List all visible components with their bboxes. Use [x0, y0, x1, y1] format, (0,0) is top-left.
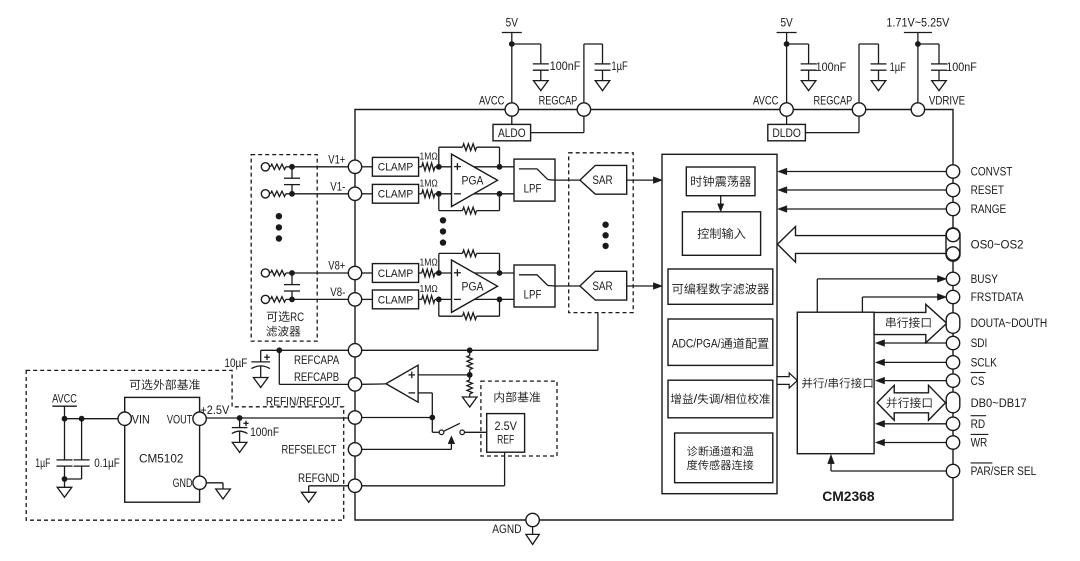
label serial interface	[886, 317, 930, 328]
programmable digital filter block	[668, 269, 773, 304]
ADC/PGA/channel config block	[668, 319, 773, 365]
resistor divider lower	[469, 375, 471, 380]
svg-text:CS: CS	[971, 374, 985, 388]
pin V8+	[348, 266, 361, 279]
svg-text:1MΩ: 1MΩ	[420, 178, 439, 189]
wire 5V to AVCC right	[786, 33, 788, 104]
pin SCLK	[946, 356, 959, 369]
label internal reference	[495, 392, 541, 403]
node PGA output top	[497, 164, 503, 170]
node divider top	[467, 347, 473, 353]
svg-text:SAR: SAR	[592, 281, 612, 293]
svg-text:+2.5V: +2.5V	[200, 403, 230, 417]
node PGA output top	[497, 270, 503, 276]
capacitor 100nF polarized	[239, 418, 241, 428]
pin AGND	[526, 513, 539, 526]
svg-text:GND: GND	[173, 478, 193, 490]
op-amp PGA	[452, 154, 498, 206]
node junction 5V/100nF	[509, 41, 515, 47]
wire RESET arrow	[782, 189, 947, 191]
wire supply to VDRIVE	[917, 33, 919, 104]
input terminal + series resistor V8-	[261, 295, 269, 303]
pin RESET	[946, 183, 959, 196]
svg-text:RC: RC	[290, 310, 304, 324]
ADC SAR block	[580, 271, 627, 300]
parallel/serial interface block	[797, 312, 874, 454]
buffer + mark	[409, 374, 416, 376]
node AVCC/1uF	[62, 416, 68, 422]
wire feedback bottom right	[477, 315, 500, 317]
svg-text:DLDO: DLDO	[772, 128, 801, 140]
ellipsis dots RC column	[276, 213, 282, 219]
label optional RC filter line1	[267, 311, 290, 322]
optional external reference dashed box	[26, 370, 344, 520]
block arrow parallel interface DB0~DB17	[877, 385, 945, 420]
pin V8-	[348, 293, 361, 306]
svg-text:AVCC: AVCC	[52, 392, 77, 406]
svg-text:VOUT: VOUT	[167, 414, 193, 426]
pin RD	[946, 417, 959, 430]
svg-text:LPF: LPF	[524, 184, 542, 196]
pin V1-	[348, 187, 361, 200]
op-amp PGA	[452, 260, 498, 312]
wire PAR/SER SEL to interface	[831, 470, 947, 472]
svg-text:REFCAPA: REFCAPA	[294, 353, 340, 367]
filter LPF box	[514, 159, 555, 201]
label optional external reference	[130, 379, 200, 390]
wire LPF to SAR	[548, 179, 555, 182]
svg-text:SDI: SDI	[971, 336, 988, 350]
wire caps join	[65, 478, 82, 480]
svg-text:1.71V~5.25V: 1.71V~5.25V	[886, 16, 950, 30]
wire feedback top	[438, 253, 440, 273]
ground (AGND)	[526, 534, 539, 544]
wire divider to buffer +	[418, 374, 470, 376]
wire GND to ground	[206, 482, 223, 484]
svg-text:FRSTDATA: FRSTDATA	[971, 290, 1025, 304]
svg-text:BUSY: BUSY	[971, 272, 998, 286]
wire feedback top right	[477, 252, 500, 254]
wire feedback bottom	[438, 299, 440, 316]
reference IC CM5102	[125, 397, 200, 502]
svg-text:WR: WR	[971, 436, 988, 450]
LPF symbol	[519, 275, 548, 286]
wire SAR to digital core + arrow	[627, 285, 655, 287]
switch contact right	[460, 430, 465, 435]
regulator DLDO	[768, 124, 806, 140]
svg-text:5V: 5V	[506, 16, 519, 30]
resistor 1Mohm V1-	[419, 193, 422, 195]
svg-text:/: /	[720, 392, 724, 406]
PGA + mark	[454, 166, 461, 168]
svg-text:V8+: V8+	[328, 259, 345, 273]
svg-text:CLAMP: CLAMP	[378, 189, 413, 201]
node 0.1uF tap	[79, 416, 85, 422]
pin REFCAPA	[348, 344, 361, 357]
capacitor 1uF (REGCAP right)	[871, 63, 887, 65]
wire AVCC to VIN	[65, 418, 119, 420]
ground (100nF AVCC)	[534, 81, 549, 91]
capacitor RC filter ch1	[291, 167, 293, 178]
wire LPF to SAR	[548, 285, 555, 288]
wire WR arrow	[879, 442, 947, 444]
pin PAR/SER SEL	[946, 464, 959, 477]
PGA - mark	[454, 298, 461, 300]
node PGA + input	[436, 270, 442, 276]
clamp block V8+	[372, 264, 418, 283]
wire feedback top	[438, 147, 440, 167]
label parallel interface	[887, 397, 932, 408]
capacitor 10uF (REFCAP)	[260, 350, 262, 362]
wire V8- to clamp	[361, 298, 372, 300]
pin VIN	[118, 412, 131, 425]
2.5V REF block	[487, 414, 525, 453]
resistor 1Mohm V8+	[419, 272, 422, 274]
wire buffer out to REFCAPB	[361, 383, 386, 385]
gain/offset/phase calibration block	[668, 380, 773, 418]
resistor feedback bottom	[463, 207, 477, 214]
wire ALDO-REGCAP	[531, 132, 584, 134]
pin VOUT	[193, 412, 206, 425]
input terminal + series resistor V1+	[261, 163, 269, 171]
clamp block V1+	[372, 157, 418, 176]
pin DB0~DB17 capsule	[946, 392, 960, 413]
wire REFSELECT to switch + arrow	[361, 448, 451, 450]
wire BUSY from interface	[816, 279, 818, 312]
svg-text:1µF: 1µF	[890, 60, 907, 74]
node junction VDRIVE/100nF	[915, 41, 921, 47]
svg-text:/: /	[694, 392, 698, 406]
svg-text:CONVST: CONVST	[971, 165, 1013, 179]
svg-text:AVCC: AVCC	[753, 93, 778, 107]
node REFCAP split	[276, 347, 282, 353]
svg-text:REF: REF	[497, 435, 514, 447]
wire PGA out bottom to LPF	[439, 193, 514, 195]
PGA - mark	[454, 193, 461, 195]
ground (CM5102 GND)	[216, 489, 231, 499]
block arrow OS0~OS2 bus	[778, 227, 947, 263]
buffer - mark	[409, 392, 416, 394]
clock oscillator block	[686, 167, 755, 196]
svg-text:5V: 5V	[780, 16, 793, 30]
SAR group dashed box	[569, 153, 634, 313]
LPF symbol	[519, 169, 548, 180]
pin REFSELECT	[348, 443, 361, 456]
node PGA - input	[436, 297, 442, 303]
wire REFGND to 2.5V REF	[361, 485, 504, 487]
svg-text:ALDO: ALDO	[498, 128, 526, 140]
svg-text:V1-: V1-	[330, 179, 345, 193]
wire 5V to AVCC	[511, 33, 513, 104]
regulator ALDO	[493, 124, 531, 140]
wire to ground	[64, 479, 66, 487]
node divider mid	[467, 372, 473, 378]
wire FRSTDATA from interface	[861, 297, 863, 312]
wire feedback top right	[477, 146, 500, 148]
svg-text:REGCAP: REGCAP	[814, 93, 853, 107]
wire VOUT to REFIN/REFOUT	[206, 417, 349, 419]
pin WR	[946, 436, 959, 449]
svg-text:RANGE: RANGE	[971, 202, 1007, 216]
wire V1- to clamp	[361, 193, 372, 195]
pin SDI	[946, 336, 959, 349]
PGA + mark	[454, 272, 461, 274]
capacitor 100nF (AVCC decoupling)	[533, 63, 549, 65]
capacitor 100nF (AVCC right)	[801, 63, 817, 65]
wire SDI arrow	[879, 342, 947, 344]
wire SAR to digital core + arrow	[627, 179, 655, 181]
wire REFIN to switch	[431, 418, 433, 433]
svg-text:REFSELECT: REFSELECT	[282, 442, 337, 456]
wire CONVST arrow	[782, 171, 947, 173]
wire REFIN internal	[361, 417, 432, 419]
node VOUT/100nF	[237, 415, 243, 421]
svg-text:DOUTA~DOUTH: DOUTA~DOUTH	[971, 316, 1048, 330]
svg-text:OS0~OS2: OS0~OS2	[971, 238, 1024, 252]
svg-text:SAR: SAR	[592, 175, 612, 187]
internal reference dashed box	[481, 381, 557, 456]
ground (100nF AVCC right)	[801, 81, 816, 91]
pin AVCC (right)	[780, 103, 793, 116]
svg-text:REGCAP: REGCAP	[539, 93, 578, 107]
ground (divider)	[462, 397, 477, 407]
wire to decoupling cap right	[787, 43, 809, 45]
ground (REFGND)	[301, 492, 316, 502]
op-amp reference buffer	[386, 365, 418, 402]
resistor 1Mohm V1+	[419, 166, 422, 168]
svg-text:REFCAPB: REFCAPB	[294, 370, 339, 384]
clamp block V8-	[372, 290, 418, 309]
svg-text:DB0~DB17: DB0~DB17	[971, 396, 1027, 410]
node PGA output bottom	[497, 191, 503, 197]
wire AVCC-DLDO	[786, 116, 788, 125]
wire switch to 2.5V REF	[465, 431, 487, 433]
input terminal + series resistor V8+	[261, 269, 269, 277]
svg-text:10µF: 10µF	[224, 356, 247, 370]
ground (1uF REGCAP right)	[871, 81, 886, 91]
ellipsis dots PGA column	[440, 217, 446, 223]
label optional RC filter line2	[266, 326, 300, 337]
wire SCLK arrow	[879, 361, 947, 363]
svg-text:CLAMP: CLAMP	[378, 162, 413, 174]
wire RD arrow	[879, 423, 947, 425]
svg-text:CM2368: CM2368	[822, 489, 874, 505]
wire REGCAP to 1uF cap	[583, 44, 585, 103]
ground (1uF REGCAP)	[595, 81, 610, 91]
wire V1+ to clamp	[361, 166, 372, 168]
ADC SAR block	[580, 165, 627, 194]
svg-text:2.5V: 2.5V	[495, 421, 518, 433]
control input block	[682, 212, 760, 256]
pin CS	[946, 374, 959, 387]
ground (CM5102 caps)	[57, 487, 72, 497]
svg-text:100nF: 100nF	[816, 60, 847, 74]
svg-text:VIN: VIN	[132, 414, 150, 426]
resistor feedback bottom	[463, 313, 477, 320]
wire REFCAPB external	[278, 350, 280, 384]
svg-text:CLAMP: CLAMP	[378, 268, 413, 280]
svg-text:REFGND: REFGND	[298, 471, 340, 485]
digital core box	[662, 154, 777, 493]
svg-text:1µF: 1µF	[35, 456, 51, 470]
wire CS arrow	[879, 380, 947, 382]
capacitor 1uF (CM5102)	[64, 419, 66, 460]
svg-text:VDRIVE: VDRIVE	[929, 93, 965, 107]
capacitor 100nF (VDRIVE)	[931, 63, 947, 65]
svg-text:CM5102: CM5102	[139, 453, 183, 465]
diagnostic channels block	[675, 433, 773, 483]
wire AVCC-ALDO	[511, 116, 513, 125]
svg-text:PGA: PGA	[462, 281, 484, 293]
resistor feedback top	[463, 144, 477, 151]
svg-text:100nF: 100nF	[250, 425, 279, 439]
wire DLDO-REGCAP	[805, 132, 859, 134]
wire REGCAP2 to 1uF cap	[858, 44, 860, 103]
svg-text:RESET: RESET	[971, 183, 1005, 197]
node REFIN	[429, 415, 435, 421]
capacitor 1uF (REGCAP)	[595, 63, 611, 65]
ellipsis dots SAR column	[602, 222, 608, 228]
wire PGA out bottom to LPF	[439, 298, 514, 300]
switch contact left	[439, 430, 444, 435]
capacitor 0.1uF (CM5102)	[81, 419, 83, 460]
node PGA + input	[436, 164, 442, 170]
svg-text:100nF: 100nF	[946, 60, 977, 74]
svg-text:PGA: PGA	[462, 176, 484, 188]
node PGA - input	[436, 191, 442, 197]
pin CONVST	[946, 165, 959, 178]
wire RANGE arrow	[782, 208, 947, 210]
wire REFCAPA internal	[361, 349, 598, 351]
pin V1+	[348, 160, 361, 173]
node PGA output bottom	[497, 297, 503, 303]
filter LPF box	[514, 265, 555, 307]
pin REFIN/REFOUT	[348, 411, 361, 424]
pin REGCAP (right)	[852, 103, 865, 116]
pin AVCC (left)	[505, 103, 518, 116]
pin DOUTA~DOUTH capsule	[946, 313, 960, 334]
pin GND (CM5102)	[193, 476, 206, 489]
resistor feedback top	[463, 250, 477, 257]
ground (100nF VDRIVE)	[932, 81, 947, 91]
wire: chip outline (AVCC/AGND analog block boundary)	[355, 110, 953, 521]
optional RC filter dashed box	[251, 155, 317, 342]
pin REGCAP (left)	[577, 103, 590, 116]
svg-text:RD: RD	[971, 417, 986, 431]
node junction 5V/100nF right	[784, 41, 790, 47]
resistor divider upper	[469, 350, 471, 355]
capacitor RC filter ch8	[291, 273, 293, 285]
wire PGA out top to LPF	[439, 272, 514, 274]
wire V8+ to clamp	[361, 272, 372, 274]
ground (10uF)	[253, 378, 268, 388]
pin REFGND	[348, 479, 361, 492]
svg-text:1MΩ: 1MΩ	[420, 258, 439, 269]
pin RANGE	[946, 202, 959, 215]
node caps gnd	[62, 476, 68, 482]
svg-text:V1+: V1+	[328, 153, 345, 167]
wire feedback bottom right	[477, 210, 500, 212]
pin OS0~OS2 capsule	[946, 228, 960, 261]
ground (100nF)	[232, 442, 247, 452]
wire to VDRIVE cap	[918, 43, 939, 45]
arrow clock to control	[720, 196, 722, 208]
wire REFCAPA external	[261, 349, 349, 351]
pin VDRIVE	[911, 103, 924, 116]
wire AGND	[532, 527, 534, 535]
input terminal + series resistor V1-	[261, 190, 269, 198]
block arrow core to parallel/serial interface	[777, 373, 797, 388]
svg-text:SCLK: SCLK	[971, 356, 998, 370]
svg-text:CLAMP: CLAMP	[378, 294, 413, 306]
svg-text:1MΩ: 1MΩ	[420, 151, 439, 162]
wire AVCC down	[64, 406, 66, 419]
wire SAR box to REFCAPA net	[597, 313, 599, 351]
wire to decoupling cap	[512, 43, 541, 45]
svg-text:1MΩ: 1MΩ	[420, 284, 439, 295]
pin FRSTDATA	[946, 290, 959, 303]
svg-text:ADC/PGA/: ADC/PGA/	[672, 337, 721, 351]
svg-text:0.1µF: 0.1µF	[94, 456, 120, 470]
clamp block V1-	[372, 184, 418, 203]
block arrow serial interface DOUTA~DOUTH	[874, 304, 947, 343]
svg-text:1µF: 1µF	[611, 59, 628, 73]
wire buffer - feedback	[418, 392, 432, 394]
svg-text:AGND: AGND	[492, 522, 521, 536]
resistor 1Mohm V8-	[419, 298, 422, 300]
switch lever	[444, 423, 460, 431]
svg-text:AVCC: AVCC	[479, 93, 504, 107]
pin REFCAPB	[348, 378, 361, 391]
wire feedback bottom	[438, 194, 440, 211]
svg-text:100nF: 100nF	[550, 59, 581, 73]
wire REFGND to ground	[309, 485, 349, 487]
pin BUSY	[946, 272, 959, 285]
svg-text:PAR/SER SEL: PAR/SER SEL	[971, 464, 1037, 478]
wire PGA out top to LPF	[439, 166, 514, 168]
svg-text:V8-: V8-	[330, 285, 345, 299]
svg-text:LPF: LPF	[524, 290, 542, 302]
